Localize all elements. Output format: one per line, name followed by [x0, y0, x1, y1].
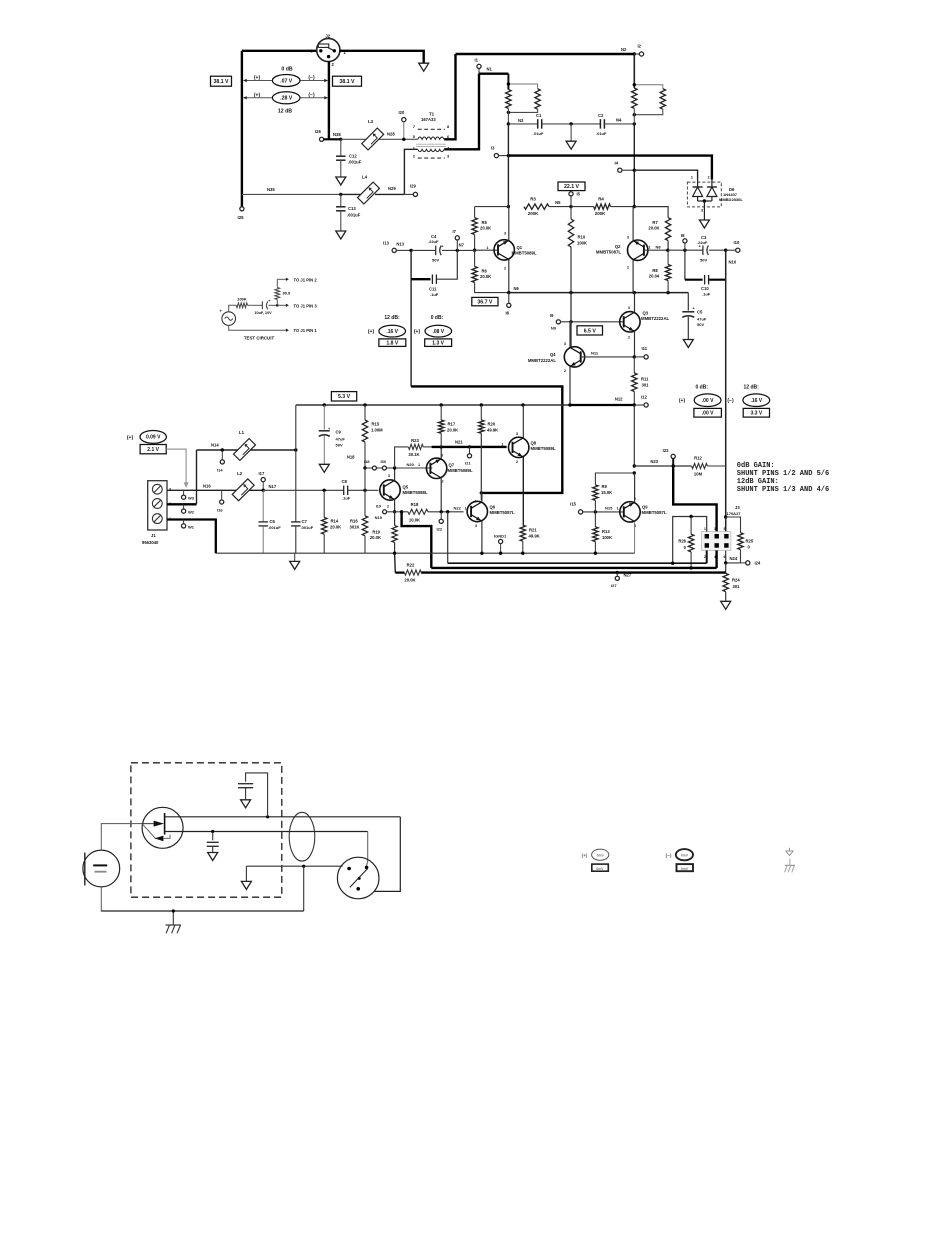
- svg-text:0mV: 0mV: [681, 867, 689, 871]
- svg-text:0mV: 0mV: [596, 867, 604, 871]
- node source cap junction: [211, 830, 214, 833]
- node bus R13: [594, 552, 597, 555]
- annotation arrow to pin3: [166, 449, 188, 488]
- svg-text:301: 301: [642, 383, 650, 388]
- svg-text:R8: R8: [652, 268, 658, 273]
- test point I11: [634, 346, 648, 359]
- svg-text:C13: C13: [348, 206, 356, 211]
- svg-text:N22: N22: [454, 506, 462, 511]
- svg-text:20.0K: 20.0K: [404, 578, 415, 583]
- svg-text:(+): (+): [582, 853, 588, 858]
- resistor R3: [524, 197, 549, 217]
- wire diode join: [698, 199, 712, 212]
- test point I13: [383, 241, 396, 253]
- resistor R16 labels: [350, 519, 360, 530]
- wire Q2 collector: [632, 207, 634, 241]
- svg-text:20.0K: 20.0K: [648, 226, 659, 231]
- node R3 left junction: [507, 205, 510, 208]
- svg-text:+: +: [693, 306, 696, 311]
- svg-text:47uF: 47uF: [336, 437, 346, 442]
- capacitor C5: [682, 306, 707, 328]
- node N9 junction: [569, 320, 572, 323]
- svg-text:C7: C7: [302, 519, 308, 524]
- resistor 100K test: [236, 297, 247, 308]
- resistor R16: [362, 490, 367, 553]
- svg-text:12 dB: 12 dB: [278, 109, 292, 115]
- node shield junction: [302, 865, 305, 868]
- label 12 dB row: [278, 109, 292, 115]
- node N17: [262, 484, 277, 492]
- wire J1 pin2: [167, 503, 197, 505]
- svg-text:Q5: Q5: [403, 485, 409, 490]
- node N3 junction: [507, 118, 524, 126]
- wire R5 to N7: [474, 235, 476, 251]
- fet transistor: [142, 807, 183, 848]
- svg-text:(−): (−): [666, 853, 672, 858]
- wire I4 row to diode D6 pin1: [634, 170, 697, 179]
- legend 0dB (+): [679, 398, 686, 404]
- ground cap top: [241, 800, 251, 808]
- svg-text:R15: R15: [372, 422, 380, 427]
- svg-text:J1: J1: [151, 533, 156, 538]
- svg-text:N28: N28: [387, 132, 395, 137]
- resistor R4: [594, 197, 611, 217]
- box 3.3 V: [743, 408, 769, 417]
- wire feedback N13 down: [410, 279, 412, 386]
- wire C1 to gnd stub: [542, 123, 601, 125]
- capacitor C4: [428, 234, 444, 263]
- node rail R15: [363, 403, 366, 406]
- legend minus box: [677, 864, 694, 871]
- svg-text:R6: R6: [482, 269, 488, 274]
- svg-text:R23: R23: [411, 438, 419, 443]
- svg-text:20.0K: 20.0K: [480, 226, 491, 231]
- box 5.3 V: [331, 392, 356, 401]
- node N12: [615, 397, 636, 407]
- node R14 top: [323, 489, 326, 492]
- wire N23 row: [634, 459, 691, 466]
- test point I21: [465, 445, 472, 465]
- arrow to J1 pin 3: [277, 303, 317, 308]
- transistor Q2: [596, 236, 661, 270]
- node N13: [396, 242, 412, 253]
- svg-text:3: 3: [564, 342, 566, 346]
- connector J1: [142, 481, 171, 545]
- wire Q2 base to N8: [644, 249, 668, 251]
- resistor R26: [678, 517, 693, 568]
- note shunt pins: [737, 462, 829, 494]
- svg-text:Q7: Q7: [449, 463, 455, 468]
- test point I3: [491, 146, 499, 158]
- svg-text:(+): (+): [127, 435, 134, 441]
- test point I29: [404, 184, 417, 197]
- svg-text:10M: 10M: [694, 472, 703, 477]
- svg-text:2: 2: [708, 176, 710, 180]
- wire junction to R7: [634, 207, 668, 218]
- transistor Q1: [475, 232, 537, 271]
- wire N13 to C4: [411, 249, 436, 251]
- node R10 bottom: [569, 291, 572, 294]
- test point W3: [182, 490, 195, 500]
- wire C7 riser: [295, 405, 297, 522]
- svg-text:MMBT2222AL: MMBT2222AL: [641, 316, 670, 321]
- svg-text:L2: L2: [237, 471, 243, 476]
- wire cap to junction: [268, 304, 277, 306]
- svg-text:.07 V: .07 V: [280, 78, 293, 84]
- wire C8 to Q5 base: [348, 489, 379, 491]
- wire I4 to junction: [622, 169, 634, 171]
- node bus Q6e: [480, 552, 483, 555]
- wire source bottom: [229, 325, 287, 330]
- svg-text:.28 V: .28 V: [280, 96, 293, 102]
- node N20 left: [363, 466, 366, 469]
- ground mid top: [566, 141, 576, 149]
- wire N4 to R4 row: [633, 170, 635, 206]
- svg-text:0.09 V: 0.09 V: [146, 435, 161, 441]
- wire R22 bus: [421, 571, 726, 573]
- svg-text:I15: I15: [570, 502, 576, 507]
- svg-text:R12: R12: [694, 456, 702, 461]
- svg-text:100K: 100K: [602, 535, 612, 540]
- wire C11 branch down: [410, 250, 412, 279]
- svg-text:7: 7: [413, 124, 416, 129]
- wire N9: [561, 321, 624, 323]
- svg-text:50V: 50V: [697, 322, 704, 327]
- wire shield row: [246, 865, 342, 867]
- wire J3 bm drop: [715, 550, 717, 568]
- svg-text:N23: N23: [650, 459, 658, 464]
- svg-text:2: 2: [628, 336, 630, 340]
- oval .07 V: [272, 75, 300, 87]
- svg-text:0 dB:: 0 dB:: [696, 385, 709, 391]
- test point I20: [399, 110, 406, 139]
- node N7: [459, 243, 477, 252]
- svg-text:12 dB:: 12 dB:: [384, 315, 400, 321]
- wire Q8 collector: [522, 405, 524, 438]
- test point I14: [217, 448, 224, 472]
- ground under D6: [699, 220, 709, 228]
- svg-text:1: 1: [649, 246, 651, 250]
- wire R15 to N20: [347, 442, 365, 468]
- wire J2 pin3 to left rail: [242, 50, 317, 52]
- svg-text:1: 1: [583, 352, 585, 356]
- capacitor C13: [336, 194, 361, 230]
- svg-text:SHUNT PINS 1/2 AND 5/6: SHUNT PINS 1/2 AND 5/6: [737, 470, 829, 478]
- svg-text:C2: C2: [598, 113, 604, 118]
- svg-text:N19: N19: [375, 515, 383, 520]
- svg-text:Q9: Q9: [642, 505, 648, 510]
- svg-text:N6: N6: [514, 286, 520, 291]
- svg-text:0 dB: 0 dB: [281, 67, 292, 73]
- svg-text:100K: 100K: [237, 297, 247, 302]
- wire T1 pin4 to N1: [444, 74, 479, 150]
- capacitor C9: [319, 405, 346, 464]
- svg-text:10uF, 10V: 10uF, 10V: [254, 311, 272, 315]
- svg-text:+: +: [328, 426, 331, 431]
- svg-text:N35: N35: [267, 187, 275, 192]
- wire N22 riser: [447, 512, 449, 563]
- svg-text:R25: R25: [746, 539, 754, 544]
- svg-text:N38: N38: [333, 132, 341, 137]
- svg-text:+: +: [441, 243, 444, 248]
- diode pack D6 box: [687, 182, 743, 207]
- resistor R25: [738, 533, 754, 550]
- svg-text:I29: I29: [410, 184, 416, 189]
- resistor R10: [568, 207, 587, 293]
- svg-text:I16: I16: [217, 508, 223, 513]
- wire D6 to ground: [703, 201, 705, 220]
- ground under R24: [721, 601, 731, 609]
- svg-text:W2: W2: [188, 510, 195, 515]
- test point I6: [506, 293, 511, 316]
- test point I25: [238, 207, 245, 220]
- node N15: [594, 506, 619, 514]
- svg-text:20.0K: 20.0K: [480, 274, 491, 279]
- wire N17 row: [263, 489, 344, 491]
- box 36.7 V: [472, 297, 498, 305]
- resistor R21: [520, 525, 540, 553]
- svg-text:MMBT5087L: MMBT5087L: [596, 250, 621, 255]
- svg-text:+: +: [268, 299, 271, 303]
- resistor R11: [632, 357, 650, 405]
- resistor R20: [479, 405, 499, 500]
- wire Q3 emitter: [634, 331, 636, 356]
- svg-text:2: 2: [387, 505, 389, 509]
- transformer T1: [413, 112, 450, 159]
- legend 12 dB title: [384, 315, 400, 321]
- wire R12 to N24 riser: [707, 465, 725, 467]
- node R18 right: [440, 510, 443, 513]
- svg-text:3: 3: [628, 306, 630, 310]
- transistor Q8: [501, 432, 556, 464]
- wire fet drain: [165, 816, 401, 818]
- ground under C9: [319, 464, 329, 472]
- wire mic bottom: [101, 887, 110, 911]
- wire shield drop: [303, 866, 305, 911]
- svg-text:0mV: 0mV: [681, 853, 689, 857]
- svg-text:1: 1: [691, 176, 693, 180]
- cable ellipse: [289, 812, 315, 861]
- svg-text:I19: I19: [376, 505, 381, 509]
- svg-text:1: 1: [465, 507, 467, 511]
- wire N12 to N23: [633, 405, 635, 466]
- svg-text:2: 2: [564, 369, 566, 373]
- svg-text:I10: I10: [734, 240, 740, 245]
- svg-text:N15: N15: [605, 506, 613, 511]
- test point I15: [570, 502, 583, 515]
- svg-text:N16: N16: [203, 484, 211, 489]
- svg-text:SHUNT PINS 1/3 AND 4/6: SHUNT PINS 1/3 AND 4/6: [737, 486, 829, 494]
- svg-text:20.0K: 20.0K: [370, 535, 381, 540]
- svg-text:I24: I24: [755, 561, 761, 566]
- legend earth: [785, 859, 795, 873]
- test point I5: [569, 192, 581, 207]
- arrow to J1 pin 1: [286, 328, 317, 333]
- svg-text:.08 V: .08 V: [432, 329, 444, 335]
- svg-text:0 dB:: 0 dB:: [431, 315, 444, 321]
- oval .08 V: [425, 325, 452, 337]
- node bus IGND1: [499, 552, 502, 555]
- svg-text:I7: I7: [453, 229, 457, 234]
- wire source to plug: [366, 832, 367, 867]
- svg-text:2: 2: [413, 154, 416, 159]
- svg-text:(+): (+): [368, 329, 375, 335]
- svg-text:2: 2: [504, 267, 506, 271]
- svg-text:(−): (−): [727, 398, 734, 404]
- oval .16 V right: [743, 394, 770, 407]
- svg-text:1: 1: [486, 246, 488, 250]
- resistor R9: [593, 473, 635, 512]
- label 0 dB row: [281, 67, 292, 73]
- svg-text:2: 2: [474, 500, 476, 504]
- resistor R4a parallel: [633, 83, 666, 116]
- svg-text:MMBT5089L: MMBT5089L: [531, 446, 556, 451]
- svg-text:200K: 200K: [595, 211, 606, 216]
- wire N20 row: [365, 467, 432, 469]
- svg-text:W3: W3: [188, 496, 195, 501]
- node N38 junction: [339, 138, 342, 141]
- wire ground bus: [216, 552, 635, 554]
- svg-text:3: 3: [504, 232, 506, 236]
- arrow to J1 pin 2: [277, 277, 317, 282]
- svg-text:R5: R5: [482, 220, 488, 225]
- svg-text:R3: R3: [530, 197, 536, 202]
- svg-text:I9: I9: [550, 313, 554, 318]
- node gnd stub junction: [569, 122, 572, 125]
- svg-text:C5: C5: [697, 310, 703, 315]
- wire N38: [324, 132, 342, 139]
- svg-text:N4: N4: [616, 118, 622, 123]
- test point I17: [259, 471, 266, 490]
- oval .00 V: [694, 394, 721, 407]
- svg-text:6: 6: [724, 555, 726, 559]
- svg-text:.16 V: .16 V: [386, 329, 398, 335]
- wire J3 bl drop: [706, 550, 708, 563]
- svg-text:3: 3: [701, 209, 703, 213]
- wire I23 to J3 path: [673, 466, 716, 532]
- svg-text:I30: I30: [380, 459, 386, 464]
- svg-text:50V: 50V: [432, 258, 439, 263]
- wire bus N22 row: [448, 562, 707, 564]
- test source: [220, 309, 236, 326]
- svg-text:R7: R7: [652, 220, 658, 225]
- wire feedback across: [411, 386, 562, 493]
- resistor R24: [723, 563, 740, 601]
- wire Q9 collector: [634, 473, 636, 502]
- svg-text:N29: N29: [388, 186, 396, 191]
- wire N6 row: [509, 292, 689, 294]
- svg-text:L4: L4: [362, 175, 368, 180]
- svg-text:R20: R20: [488, 422, 496, 427]
- svg-text:2.1 V: 2.1 V: [147, 447, 159, 453]
- svg-text:I18: I18: [364, 459, 370, 464]
- svg-text:N27: N27: [624, 573, 632, 578]
- capacitor C11: [411, 250, 457, 297]
- svg-text:Q3: Q3: [643, 311, 649, 316]
- svg-text:10.0K: 10.0K: [409, 518, 420, 523]
- resistor R19: [370, 512, 397, 553]
- wire Q6 emitter: [481, 521, 483, 553]
- box 2.1 V: [140, 445, 166, 454]
- ground under C12: [336, 177, 346, 185]
- node C8 right junction: [363, 489, 366, 492]
- wire C3 to N10: [709, 249, 726, 251]
- wire R3row to R5: [474, 207, 476, 218]
- svg-text:T1: T1: [429, 112, 435, 117]
- svg-text:1: 1: [418, 463, 420, 467]
- svg-text:R19: R19: [372, 530, 380, 535]
- inductor L1: [234, 430, 256, 460]
- svg-text:9563040: 9563040: [142, 540, 159, 545]
- svg-text:N13: N13: [396, 242, 404, 247]
- svg-text:Q8: Q8: [531, 441, 537, 446]
- svg-text:TEST CIRCUIT: TEST CIRCUIT: [244, 336, 275, 341]
- wire N23 junction: [633, 464, 636, 467]
- test point I24: [741, 561, 761, 566]
- node R18 left: [400, 510, 403, 513]
- wire mic top to gate: [101, 824, 142, 851]
- wire Q5 collector: [394, 468, 396, 481]
- svg-text:I23: I23: [663, 448, 669, 453]
- connector J2 (XLR): [311, 34, 347, 68]
- wire Q1 emitter: [508, 260, 510, 293]
- wire N1 vertical top: [507, 74, 509, 90]
- test point I4: [615, 161, 622, 173]
- svg-text:0: 0: [684, 545, 687, 550]
- gain row 1 (+) label: [254, 75, 261, 81]
- ground under C5: [683, 340, 693, 348]
- ground inner: [241, 866, 251, 889]
- meas arrow row2 right: [300, 96, 328, 99]
- svg-text:TO J1 PIN 3: TO J1 PIN 3: [294, 303, 318, 308]
- wire to test cap: [248, 304, 263, 306]
- svg-text:R26: R26: [678, 539, 686, 544]
- oval .16 V: [379, 325, 406, 337]
- wire pair to N4: [633, 108, 635, 124]
- svg-text:N2: N2: [621, 47, 627, 52]
- resistor R6: [472, 250, 509, 292]
- svg-text:MMBT5088L: MMBT5088L: [403, 490, 428, 495]
- inductor L3: [362, 119, 384, 150]
- label N20: [407, 462, 421, 467]
- svg-text:3: 3: [475, 524, 477, 528]
- svg-text:6.5 V: 6.5 V: [584, 328, 597, 334]
- svg-text:R24: R24: [732, 578, 740, 583]
- svg-text:20.0K: 20.0K: [330, 525, 341, 530]
- box 6.5 V: [577, 326, 603, 335]
- wire Q1 collector: [508, 207, 510, 241]
- resistor R1: [506, 90, 511, 109]
- node N2: [621, 47, 636, 56]
- svg-text:R13: R13: [602, 529, 610, 534]
- svg-text:C1: C1: [536, 113, 542, 118]
- legend minus oval: [666, 849, 693, 860]
- transistor Q9: [620, 497, 667, 528]
- wire Q7 collector: [440, 447, 442, 459]
- node N11 junction: [633, 355, 636, 358]
- wire R1 to C1 junction: [507, 108, 509, 124]
- svg-text:(+): (+): [679, 398, 686, 404]
- svg-text:I8: I8: [681, 233, 685, 238]
- svg-text:.22uF: .22uF: [428, 239, 439, 244]
- test point I19: [375, 510, 387, 520]
- svg-text:I25: I25: [238, 215, 245, 220]
- node Q2 emitter junction: [633, 291, 636, 294]
- inductor L4: [358, 175, 380, 204]
- svg-text:+: +: [220, 309, 223, 314]
- wire J2 pin2 drop: [328, 62, 330, 140]
- wire J1 pin3 (N16): [167, 489, 263, 491]
